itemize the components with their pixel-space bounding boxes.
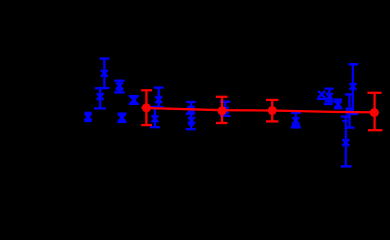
- red fit line: [142, 108, 378, 113]
- blue data point B: [114, 81, 124, 93]
- blue data point K: [334, 100, 343, 109]
- blue data point E: [129, 96, 139, 104]
- blue data point D: [85, 113, 92, 121]
- blue data point N2: [341, 94, 355, 127]
- blue data point J2: [324, 89, 334, 104]
- red data point R3: [266, 100, 278, 122]
- blue data point C: [94, 88, 106, 108]
- blue data point G lower: [186, 114, 196, 129]
- blue data point G upper: [186, 102, 195, 129]
- blue data point J1: [317, 91, 326, 99]
- blue data point H: [220, 102, 231, 116]
- red data point R1: [141, 90, 152, 125]
- blue data point B5: [154, 88, 164, 107]
- red data point R4: [367, 93, 382, 130]
- blue data point A: [99, 59, 109, 88]
- red data point R2: [216, 97, 228, 123]
- blue data point N1 long bar: [348, 64, 359, 114]
- blue data point B6: [150, 107, 160, 127]
- blue data point F: [117, 114, 126, 122]
- blue data point I: [291, 113, 301, 128]
- blue data point N3: [341, 117, 352, 167]
